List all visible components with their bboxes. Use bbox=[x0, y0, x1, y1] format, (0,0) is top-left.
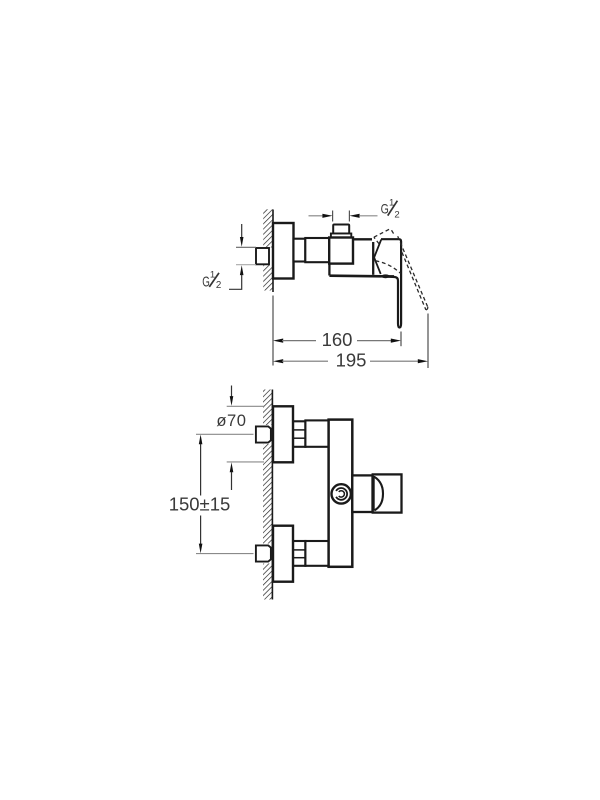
svg-text:1: 1 bbox=[389, 198, 394, 209]
svg-text:1: 1 bbox=[210, 270, 215, 281]
svg-text:195: 195 bbox=[336, 349, 367, 370]
svg-text:150±15: 150±15 bbox=[169, 494, 231, 515]
svg-text:ø70: ø70 bbox=[216, 411, 246, 430]
svg-text:G: G bbox=[202, 275, 210, 291]
svg-text:2: 2 bbox=[216, 280, 221, 291]
svg-text:160: 160 bbox=[322, 329, 353, 350]
svg-text:2: 2 bbox=[394, 209, 399, 220]
